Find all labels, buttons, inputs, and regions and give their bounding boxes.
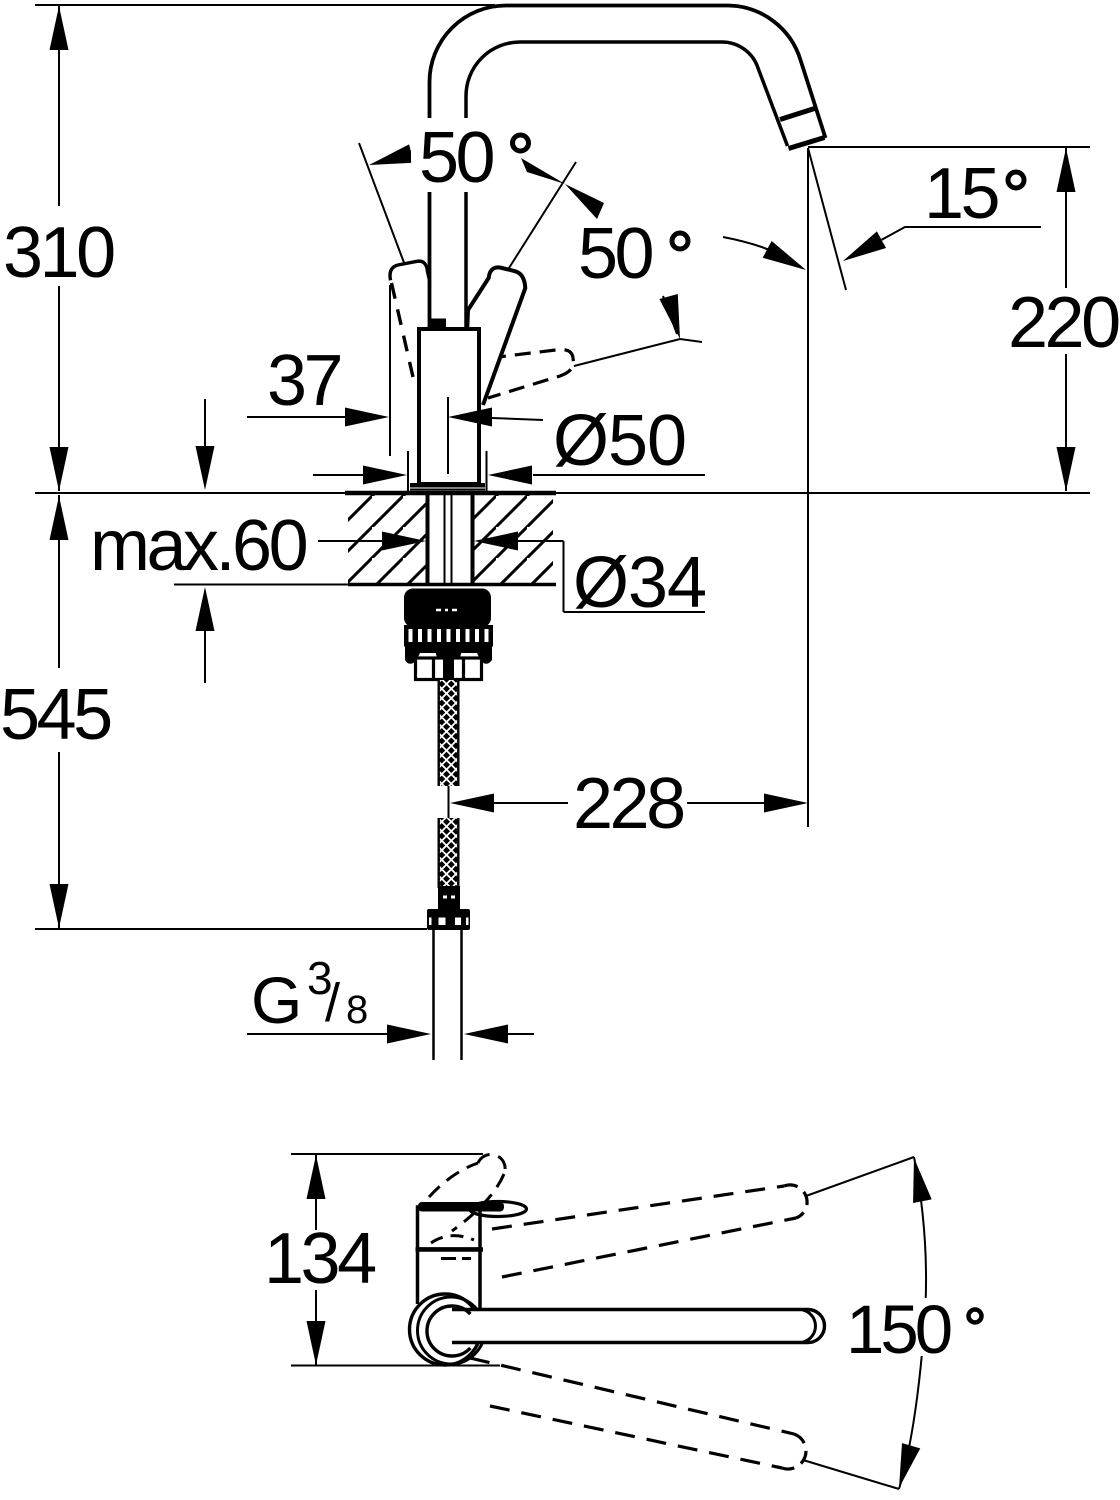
braided hose upper — [438, 680, 460, 786]
arrow max60 bottom — [196, 587, 215, 631]
svg-text:8: 8 — [346, 988, 368, 1032]
aerator band — [780, 109, 815, 120]
arrow 134 top — [307, 1155, 326, 1199]
handle axis leader left (50 deg) — [359, 143, 406, 268]
body box top view — [418, 1207, 481, 1249]
flange lower line — [410, 489, 485, 491]
hose lines inside shaft — [445, 495, 452, 583]
handle axis leader right (50 deg) — [509, 162, 576, 268]
cartridge notch — [429, 319, 446, 328]
dashed spout lower cap — [782, 1434, 806, 1469]
arrow 15deg — [838, 231, 886, 269]
scallop teeth — [405, 651, 421, 664]
top extension line — [35, 4, 495, 6]
body base flange — [410, 483, 485, 488]
spout tube white fill — [452, 1311, 808, 1341]
arrow 545 bottom — [50, 884, 69, 928]
arrow 37 right — [448, 408, 492, 427]
flange extension line left — [407, 451, 409, 491]
leader 50deg second arc — [723, 237, 801, 267]
arrow 134 bottom — [307, 1321, 326, 1365]
arrow 228 left — [450, 794, 494, 813]
arrow 220 top — [1057, 148, 1076, 192]
dashed handle horizontal axis leader — [574, 339, 702, 366]
svg-text:37: 37 — [267, 341, 341, 421]
arrow 50deg second down — [663, 296, 677, 334]
dimension line 545 — [58, 495, 60, 928]
spout tube edges — [452, 1310, 808, 1343]
body side walls to pivot — [418, 1251, 481, 1310]
supply tube — [434, 930, 462, 1060]
arc extension line upper — [806, 1157, 914, 1196]
svg-text:G: G — [251, 963, 302, 1037]
text mask 150deg — [840, 1298, 995, 1356]
spout tip angle line 15deg — [808, 148, 846, 290]
inner dashed curve — [431, 1236, 474, 1243]
text mask 134 — [258, 1230, 378, 1290]
max60 dimension lower — [204, 629, 206, 683]
spout tip end — [789, 138, 825, 149]
svg-text:134: 134 — [264, 1219, 375, 1299]
dimension line 134 — [315, 1155, 317, 1365]
arrow G38 left — [387, 1025, 431, 1044]
braided hose lower — [438, 818, 460, 888]
arrow 310 top — [50, 6, 69, 50]
arrow 150 top — [905, 1156, 932, 1203]
arrow O34 left — [382, 532, 426, 551]
arrow O50 right — [488, 466, 532, 485]
spout inner contour — [466, 42, 788, 327]
dim O34 leader — [318, 541, 705, 612]
flange line top view — [416, 1247, 484, 1252]
hose break centerline — [448, 786, 450, 818]
545 bottom extension — [35, 928, 427, 930]
bowtie 50deg first right — [521, 158, 565, 184]
134 bottom extension — [291, 1365, 500, 1367]
dim 37 extension line — [389, 285, 391, 456]
shaft wall left — [426, 495, 430, 583]
150deg arc — [899, 1157, 926, 1489]
arrow 50deg second down — [659, 294, 689, 341]
dashed handle pointing right (side view) — [488, 350, 574, 398]
hose ferrule — [438, 886, 460, 910]
arrow O50 left — [363, 466, 407, 485]
G38 arrow tails — [247, 1033, 534, 1035]
svg-text:50: 50 — [419, 118, 494, 198]
arrow 37 left — [345, 408, 389, 427]
leader 15deg — [882, 227, 1041, 240]
handle solid (side view) — [466, 267, 525, 405]
scallop band — [405, 645, 492, 653]
spout tip vertical reference — [807, 148, 809, 827]
arrow 545 top — [50, 496, 69, 540]
svg-text:max.60: max.60 — [90, 506, 307, 586]
arrow 50deg first left — [367, 144, 414, 174]
supply nut — [427, 909, 470, 930]
handle paddle ellipse — [470, 1202, 527, 1217]
dimension line 310 — [58, 6, 60, 491]
counter hatch left — [348, 495, 426, 583]
tip extension line right — [808, 146, 1090, 148]
arrow 220 bottom — [1057, 447, 1076, 491]
text mask 310 — [0, 206, 122, 286]
dashed spout upper cap — [784, 1185, 807, 1218]
mounting bracket — [416, 658, 482, 680]
arrow O34 right — [474, 532, 518, 551]
svg-text:Ø50: Ø50 — [553, 401, 686, 481]
spout cap outer — [808, 1310, 825, 1343]
svg-text:Ø34: Ø34 — [573, 543, 706, 623]
shaft wall right — [471, 495, 475, 583]
counter hatch right — [474, 495, 553, 583]
text mask 50deg first — [411, 118, 505, 192]
lever dashed outline — [429, 1163, 478, 1197]
svg-text:/: / — [325, 973, 340, 1033]
sub dashes — [441, 1257, 471, 1260]
arrow G38 right — [464, 1025, 508, 1044]
faucet body — [419, 329, 479, 484]
counter bottom line — [174, 584, 348, 586]
text mask 220 — [1002, 288, 1120, 354]
svg-text:150: 150 — [846, 1291, 951, 1368]
svg-text:15: 15 — [924, 154, 999, 234]
knurled ring — [404, 625, 493, 647]
max60 dimension upper — [204, 399, 206, 450]
spout body silhouette — [430, 6, 826, 330]
dimension line 220 — [1065, 148, 1067, 491]
handle bar black — [418, 1202, 504, 1212]
cap label ticks — [436, 609, 457, 612]
dim 37 tails — [247, 417, 543, 420]
arc extension line lower — [803, 1460, 899, 1489]
arrow 50deg second arc — [763, 241, 811, 278]
pivot inner circle C — [427, 1306, 470, 1356]
spout cap inner — [803, 1310, 815, 1342]
dashed handle left (side view) — [390, 261, 447, 377]
arrow 310 bottom — [50, 447, 69, 491]
dimension line 228 segments — [494, 802, 764, 804]
body centerline — [447, 397, 449, 474]
dim O50 tails — [313, 474, 705, 476]
134 top extension — [291, 1153, 483, 1155]
counter top line — [35, 492, 1090, 494]
dashed spout upper edges — [492, 1186, 784, 1229]
text mask 545 — [0, 668, 122, 752]
svg-text:545: 545 — [0, 675, 111, 755]
arrow 150 bottom — [890, 1443, 920, 1491]
spout outer contour — [430, 6, 826, 330]
dashed spout lower edges — [470, 1358, 794, 1434]
arrow max60 top — [196, 446, 215, 490]
svg-text:220: 220 — [1008, 283, 1119, 363]
mounting cap black — [404, 589, 491, 628]
svg-text:50: 50 — [578, 214, 653, 294]
pivot outer circle — [410, 1294, 481, 1365]
arrow 228 right — [764, 794, 808, 813]
svg-text:228: 228 — [573, 764, 683, 844]
flange extension line right — [486, 451, 488, 491]
pivot outer circle second — [418, 1297, 485, 1364]
svg-text:310: 310 — [3, 213, 114, 293]
